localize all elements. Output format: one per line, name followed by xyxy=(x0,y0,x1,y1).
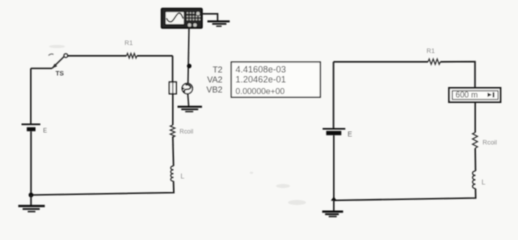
readout value box xyxy=(231,62,320,97)
faint scan smudges xyxy=(49,45,306,205)
wire: Rcoil to L xyxy=(172,136,175,166)
svg-text:R1: R1 xyxy=(427,48,436,55)
ammeter display (600 m) xyxy=(449,88,501,102)
readout labels T2 / VA2 / VB2 xyxy=(206,65,222,95)
resistor R1 (left circuit) xyxy=(125,40,137,58)
wire: top wire right of R1 to right rail xyxy=(440,62,475,88)
wire: fuse box to Rcoil xyxy=(172,94,174,125)
oscilloscope XSC body xyxy=(162,9,203,29)
wire: drop from top wire to fuse box xyxy=(172,56,174,82)
fuse box component xyxy=(169,82,176,94)
left rail (right circuit) xyxy=(333,62,335,129)
wire: top-left horizontal from left rail to switch hinge xyxy=(31,67,52,69)
resistor Rcoil (left circuit) xyxy=(170,125,193,137)
ground (probe) xyxy=(178,107,203,112)
battery E (right circuit) xyxy=(323,129,353,139)
battery E (left circuit) xyxy=(22,124,48,134)
measurement probe (circle with symbol) xyxy=(182,83,193,93)
node: bottom junction (right circuit) xyxy=(331,197,337,201)
wire: scope bottom down to probe xyxy=(188,28,189,84)
svg-text:T2: T2 xyxy=(213,65,223,75)
wire: battery to bottom junction xyxy=(30,131,32,195)
wire: L to bottom wire back to battery junction xyxy=(334,189,476,201)
wire: Rcoil to L (right circuit) xyxy=(474,148,476,171)
wire: top wire right of R1 xyxy=(137,55,173,57)
svg-text:0.00000e+00: 0.00000e+00 xyxy=(236,86,285,96)
svg-text:E: E xyxy=(348,131,353,138)
inductor L (left circuit) xyxy=(171,166,185,181)
svg-text:Rcoil: Rcoil xyxy=(483,139,498,146)
svg-text:VA2: VA2 xyxy=(207,75,223,85)
svg-text:L: L xyxy=(181,174,185,181)
wire: probe to ground xyxy=(187,94,190,106)
svg-text:VB2: VB2 xyxy=(206,85,222,95)
inductor L (right circuit) xyxy=(473,171,486,189)
wire: battery to bottom junction (right circuit) xyxy=(333,135,335,200)
wire: top wire left of R1 (right circuit) xyxy=(334,61,429,63)
svg-text:TS: TS xyxy=(56,71,65,78)
svg-text:600 m: 600 m xyxy=(456,90,479,99)
resistor Rcoil (right circuit) xyxy=(473,133,498,149)
svg-text:4.41608e-03: 4.41608e-03 xyxy=(236,64,287,74)
svg-text:L: L xyxy=(482,180,486,187)
wire: L to bottom corner and bottom wire back to battery xyxy=(31,181,174,195)
node: bottom-left junction xyxy=(29,193,34,198)
ground (left circuit) xyxy=(18,195,45,212)
left rail wire (switch corner down to battery) xyxy=(30,68,32,124)
svg-text:R1: R1 xyxy=(125,40,134,47)
wire: meter to Rcoil (right circuit) xyxy=(474,102,476,132)
node: junction dot on scope wire xyxy=(187,64,192,69)
wire: scope to its ground xyxy=(202,14,218,21)
switch TS xyxy=(49,54,68,78)
resistor R1 (right circuit) xyxy=(427,48,441,64)
wire: top wire left of R1 xyxy=(68,55,127,57)
svg-text:1.20462e-01: 1.20462e-01 xyxy=(236,74,287,84)
svg-text:E: E xyxy=(43,129,47,135)
ground (right circuit) xyxy=(322,200,343,216)
svg-text:Rcoil: Rcoil xyxy=(180,129,194,136)
ground (oscilloscope) xyxy=(207,21,229,26)
